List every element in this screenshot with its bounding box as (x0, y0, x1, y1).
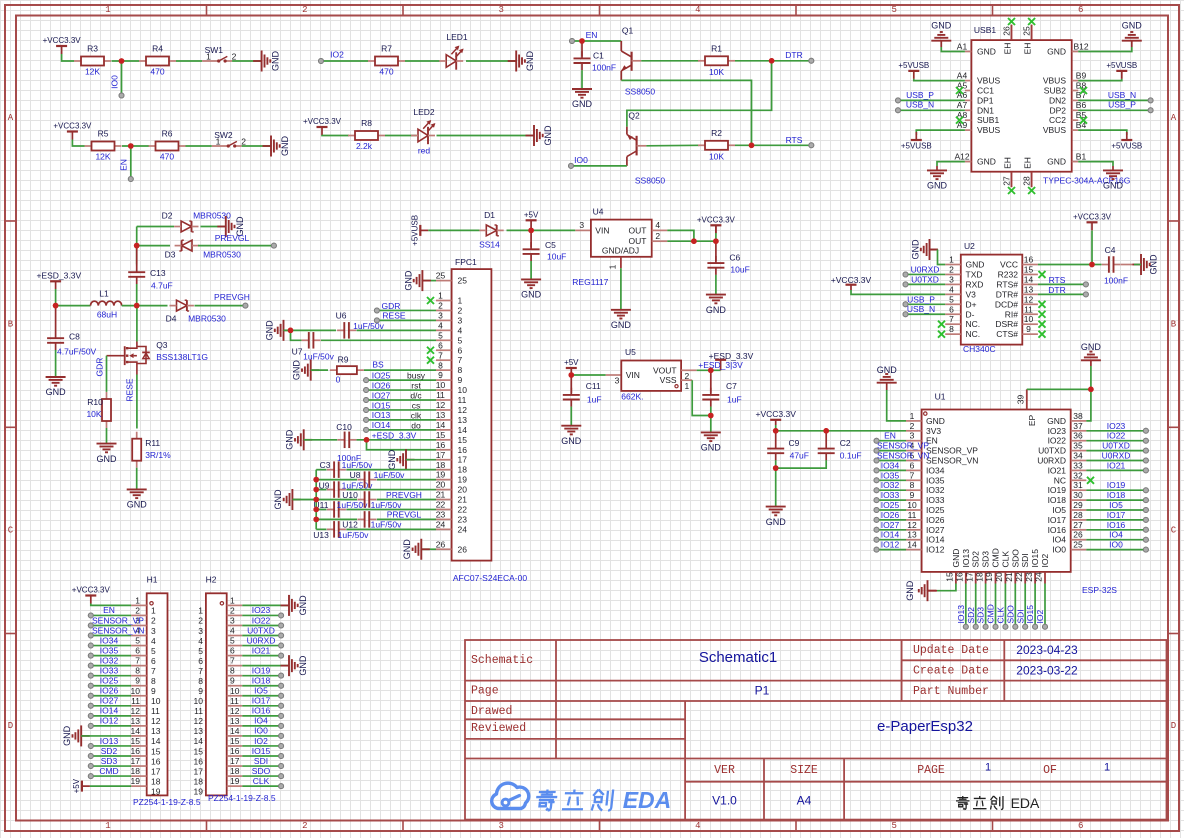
wire (735, 144, 811, 146)
svg-text:EN: EN (103, 605, 115, 615)
svg-text:CH340C: CH340C (963, 344, 996, 354)
ground GND (U4) (611, 309, 631, 311)
power +VCC3.3V (U2 VCC) (1087, 221, 1098, 223)
svg-text:14: 14 (194, 736, 204, 746)
power +VCC3.3V (U4) (710, 224, 721, 226)
svg-text:3: 3 (498, 5, 503, 15)
svg-text:18: 18 (436, 460, 446, 470)
svg-text:16: 16 (955, 572, 965, 582)
svg-text:15: 15 (230, 736, 240, 746)
wire SENSOR_VP (H1 pin 3) (88, 623, 93, 628)
svg-text:IO22: IO22 (1048, 436, 1067, 446)
U1 pin 21 SDO (1014, 572, 1016, 584)
junction cap bus (313, 477, 319, 483)
ground GND (C1) (572, 88, 592, 90)
svg-text:12: 12 (1024, 294, 1034, 304)
svg-text:DTR: DTR (1048, 285, 1065, 295)
svg-text:1: 1 (438, 291, 443, 301)
svg-text:19: 19 (436, 470, 446, 480)
svg-text:28: 28 (1073, 510, 1083, 520)
wire IO13 (H1 pin 15) (88, 743, 93, 748)
svg-text:H2: H2 (206, 575, 217, 585)
svg-text:3: 3 (438, 311, 443, 321)
power +VCC3.3V (R3) (56, 45, 67, 47)
power +5VUSB (D1) (419, 225, 421, 236)
wire B4 VBUS to +5VUSB (1078, 130, 1127, 135)
H1 pin 19 (131, 785, 147, 787)
svg-text:IO5: IO5 (1109, 500, 1123, 510)
U1 pin 11 IO26 (906, 519, 922, 521)
svg-text:IO26: IO26 (926, 515, 945, 525)
no-connect USB1 A8 (956, 117, 963, 124)
svg-text:19: 19 (151, 786, 161, 796)
ground GND (U1 EP) (1081, 359, 1101, 361)
svg-text:VER: VER (714, 764, 735, 777)
wire IO15 (FPC pin 12) (364, 407, 369, 412)
svg-text:PREVGH: PREVGH (214, 292, 250, 302)
wire (136, 468, 138, 490)
FPC1 pin 25 (436, 280, 452, 282)
svg-text:d/c: d/c (410, 391, 422, 401)
svg-text:12: 12 (194, 716, 204, 726)
H2 pin 15 (227, 745, 243, 747)
svg-text:GND: GND (265, 320, 275, 341)
svg-text:C11: C11 (586, 381, 601, 391)
svg-text:DN1: DN1 (977, 105, 994, 115)
svg-text:3: 3 (498, 821, 503, 831)
U1 pin 37 IO23 (1071, 430, 1087, 432)
svg-text:18: 18 (458, 465, 468, 475)
wire IO5 (H2 pin 10) (242, 695, 281, 697)
svg-text:B1: B1 (1076, 151, 1087, 161)
ground GND (C8) (46, 376, 66, 378)
ground GND (C11) (561, 425, 581, 427)
svg-text:R2: R2 (711, 128, 722, 138)
svg-text:1: 1 (105, 5, 110, 15)
FPC1 pin 26 (436, 548, 452, 550)
svg-text:H1: H1 (147, 575, 158, 585)
svg-text:IO27: IO27 (926, 525, 945, 535)
svg-text:470: 470 (160, 152, 174, 162)
svg-text:12: 12 (230, 706, 240, 716)
wire IO12 (H1 pin 13) (88, 723, 93, 728)
U1 pin 4 SENSOR_VP (906, 450, 922, 452)
wire IO33 (U1 pin 9) (874, 498, 879, 503)
U1 pin 6 IO34 (906, 469, 922, 471)
U2 pin 10 DSR# (1022, 323, 1038, 325)
ground GND (D2) (217, 226, 226, 228)
svg-text:EDA: EDA (1011, 795, 1040, 811)
svg-text:2: 2 (151, 616, 156, 626)
svg-text:U6: U6 (336, 311, 347, 321)
no-connect U2 pin8 (938, 331, 945, 338)
svg-text:GND: GND (977, 47, 996, 57)
wire IO13 (U1 bottom) (965, 584, 967, 625)
U1 pin 2 3V3 (906, 430, 922, 432)
svg-text:9: 9 (1026, 324, 1031, 334)
H2 pin 10 (227, 695, 243, 697)
svg-text:D3: D3 (165, 250, 176, 260)
U1 pin 39 EP (1026, 389, 1028, 409)
svg-text:13: 13 (151, 726, 161, 736)
capacitor C9 (775, 431, 777, 442)
FPC1 pin 8 (436, 369, 452, 371)
power +VCC3.3V (H1 pin1) (85, 594, 96, 596)
svg-text:25: 25 (458, 276, 468, 286)
no-connect U2 pin9 CTS# (1039, 331, 1046, 338)
svg-text:2: 2 (910, 421, 915, 431)
ground GND (C5) (521, 278, 541, 280)
svg-text:U10: U10 (342, 490, 358, 500)
ground GND (H2 pin7) (242, 665, 289, 667)
ground GND (U6/U7) (284, 329, 293, 331)
wire USB_P (A6) (896, 98, 901, 103)
svg-text:4: 4 (230, 626, 235, 636)
svg-text:SD3: SD3 (101, 756, 118, 766)
FPC1 pin 11 (436, 399, 452, 401)
wire IO33 (H1 pin 8) (88, 673, 93, 678)
svg-text:26: 26 (436, 539, 446, 549)
svg-text:GND: GND (387, 449, 397, 470)
wire IO17 (H2 pin 11) (242, 705, 281, 707)
FPC1 pin 17 (436, 459, 452, 461)
no-connect U2 pin10 DSR# (1039, 321, 1046, 328)
svg-text:IO5: IO5 (254, 686, 268, 696)
wire IO34 (U1 pin 6) (874, 468, 879, 473)
svg-text:24: 24 (458, 524, 468, 534)
svg-text:IO12: IO12 (100, 716, 119, 726)
svg-text:IO13: IO13 (956, 605, 966, 624)
svg-text:6: 6 (151, 656, 156, 666)
svg-text:GND: GND (611, 320, 632, 330)
ground GND (U1 pin1) (877, 382, 897, 384)
svg-text:+5VUSB: +5VUSB (901, 142, 932, 151)
svg-text:SUB1: SUB1 (977, 115, 999, 125)
svg-text:SD3: SD3 (981, 551, 991, 568)
USB1 pin A4 VBUS (965, 80, 972, 82)
svg-text:15: 15 (151, 746, 161, 756)
svg-text:IO16: IO16 (1107, 520, 1126, 530)
H1 pin 5 (131, 645, 147, 647)
svg-text:Create Date: Create Date (913, 665, 989, 678)
wire IO25 (H1 pin 9) (88, 683, 93, 688)
svg-text:2: 2 (230, 605, 235, 615)
svg-text:9: 9 (151, 686, 156, 696)
FPC1 pin 7 (436, 359, 452, 361)
svg-text:B12: B12 (1073, 41, 1088, 51)
svg-text:9: 9 (910, 490, 915, 500)
wire EN (H1 pin 2) (88, 613, 93, 618)
svg-text:EDA: EDA (623, 787, 672, 813)
svg-text:IO23: IO23 (252, 605, 271, 615)
svg-text:ESP-32S: ESP-32S (1082, 585, 1117, 595)
USB1 pin B7 DN2 (1072, 99, 1079, 101)
svg-text:RTS#: RTS# (996, 279, 1018, 289)
svg-text:GDR: GDR (95, 358, 105, 377)
resistor R5 (85, 145, 92, 147)
wire IO25 (FPC pin 9) (364, 378, 369, 383)
svg-text:6: 6 (135, 646, 140, 656)
ground GND (R10) (97, 443, 117, 445)
U2 pin 4 V3 (945, 293, 961, 295)
svg-text:red: red (418, 146, 431, 156)
wire RESE (FPC pin3) (374, 318, 379, 323)
wire Q2 base (646, 144, 699, 147)
svg-text:100nF: 100nF (592, 63, 616, 73)
svg-text:1: 1 (949, 255, 954, 265)
USB1 pin B8 SUB2 (1072, 90, 1079, 92)
svg-text:CLK: CLK (253, 776, 270, 786)
svg-text:C7: C7 (726, 381, 737, 391)
H1 pin 13 (131, 725, 147, 727)
svg-text:7: 7 (438, 350, 443, 360)
svg-text:16: 16 (131, 746, 141, 756)
svg-text:11: 11 (131, 696, 140, 706)
wire pin38 GND (1086, 389, 1091, 421)
capacitor C5 (530, 230, 532, 247)
wire (122, 145, 149, 147)
svg-text:IO5: IO5 (1052, 505, 1066, 515)
wire EN (U1 pin 3) (874, 438, 879, 443)
svg-text:CMD: CMD (991, 548, 1001, 567)
ground GND (R9) (311, 369, 320, 371)
svg-text:11: 11 (230, 696, 239, 706)
svg-text:12: 12 (151, 716, 161, 726)
svg-text:3: 3 (230, 615, 235, 625)
svg-text:IO32: IO32 (100, 655, 119, 665)
svg-text:DTR: DTR (785, 50, 802, 60)
svg-text:R3: R3 (87, 44, 98, 54)
ground GND (SW2) (263, 145, 272, 147)
svg-text:EH: EH (1023, 157, 1033, 169)
FPC1 pin 12 (436, 409, 452, 411)
svg-text:9: 9 (198, 686, 203, 696)
no-connect USB1 B5 (1080, 117, 1087, 124)
no-connect USB1 B8 (1080, 87, 1087, 94)
wire IO15 (H2 pin 16) (242, 755, 281, 757)
svg-text:IO26: IO26 (881, 510, 900, 520)
svg-text:VSS: VSS (660, 375, 677, 385)
no-connect USB1 pin28 (1028, 187, 1035, 194)
svg-text:rst: rst (411, 381, 421, 391)
H1 pin 12 (131, 715, 147, 717)
svg-text:GND: GND (292, 360, 302, 381)
svg-text:IO22: IO22 (1107, 431, 1126, 441)
capacitor C4 (1092, 264, 1102, 266)
H1 pin 1 (131, 604, 147, 606)
svg-text:31: 31 (1073, 480, 1083, 490)
H1 pin 11 (131, 705, 147, 707)
svg-text:7: 7 (151, 666, 156, 676)
wire C2 to C9 (776, 460, 827, 468)
svg-text:13: 13 (458, 415, 468, 425)
svg-text:20: 20 (994, 572, 1004, 582)
junction cap bus (313, 487, 319, 493)
svg-text:1: 1 (216, 137, 221, 147)
U1 pin 18 SD3 (985, 572, 987, 584)
wire BS (364, 369, 436, 371)
svg-text:U8: U8 (350, 470, 361, 480)
U1 pin 31 IO19 (1071, 489, 1087, 491)
svg-text:USB_N: USB_N (906, 100, 934, 110)
svg-text:U12: U12 (342, 520, 358, 530)
wire USB_P (U2 pin5) (903, 302, 908, 307)
svg-text:IO16: IO16 (1048, 525, 1067, 535)
ground GND (H1 pin14) (81, 735, 90, 737)
svg-text:VBUS: VBUS (977, 76, 1000, 86)
svg-text:SDI: SDI (1015, 609, 1025, 623)
wire (437, 135, 535, 137)
wire IO4 (U1 right) (1086, 539, 1144, 541)
svg-text:GND: GND (298, 655, 308, 676)
power +5VUSB (A4) (908, 70, 919, 72)
switch SW1 (202, 60, 219, 62)
svg-text:R10: R10 (87, 397, 103, 407)
svg-text:4.7uF: 4.7uF (151, 281, 173, 291)
ground GND (R11) (127, 488, 147, 490)
svg-text:SENSOR_VP: SENSOR_VP (92, 615, 144, 625)
wire IO34 (H1 pin 5) (88, 643, 93, 648)
U1 pin 29 IO5 (1071, 509, 1087, 511)
wire IO0 (121, 61, 123, 94)
svg-text:4: 4 (695, 821, 700, 831)
svg-text:2023-04-23: 2023-04-23 (1016, 643, 1078, 657)
svg-text:37: 37 (1073, 421, 1083, 431)
wire (122, 305, 168, 307)
svg-text:RXD: RXD (966, 279, 984, 289)
transistor Q1 (620, 41, 622, 51)
no-connect U2 pin12 DCD# (1039, 301, 1046, 308)
svg-text:3: 3 (151, 626, 156, 636)
svg-text:10: 10 (131, 686, 141, 696)
U4 pin2 OUT (652, 240, 668, 242)
svg-text:100nF: 100nF (1104, 276, 1128, 286)
ground GND (SW1) (253, 60, 262, 62)
svg-text:IO35: IO35 (926, 475, 945, 485)
svg-text:GND: GND (561, 436, 582, 446)
svg-text:2: 2 (458, 305, 463, 315)
svg-text:10K: 10K (709, 67, 724, 77)
svg-text:4: 4 (438, 320, 443, 330)
capacitor U13 (FPC pin 24) (316, 528, 326, 530)
svg-text:OUT: OUT (629, 225, 647, 235)
capacitor U9 (FPC pin 20) (316, 489, 326, 491)
svg-text:18: 18 (131, 766, 141, 776)
svg-text:IO0: IO0 (254, 726, 268, 736)
capacitor C10 (304, 439, 338, 441)
U1 pin 13 IO14 (906, 539, 922, 541)
svg-text:EP: EP (1027, 415, 1037, 427)
svg-text:REG1117: REG1117 (572, 277, 608, 287)
svg-text:3: 3 (198, 626, 203, 636)
svg-text:IO32: IO32 (881, 480, 900, 490)
wire RESE (136, 375, 138, 429)
H1 pin 18 (131, 775, 147, 777)
svg-text:GND: GND (62, 725, 72, 746)
svg-text:14: 14 (230, 726, 240, 736)
svg-text:47uF: 47uF (790, 451, 809, 461)
svg-text:RESE: RESE (382, 311, 405, 321)
svg-text:IO27: IO27 (372, 390, 391, 400)
svg-text:26: 26 (1002, 26, 1012, 36)
capacitor C7 (710, 370, 712, 393)
svg-text:2: 2 (302, 821, 307, 831)
svg-text:11: 11 (194, 706, 203, 716)
JLCEDA logo cloud icon (492, 783, 529, 808)
svg-text:IO4: IO4 (1052, 535, 1066, 545)
power +5VUSB (B9) (1116, 70, 1127, 72)
svg-text:16: 16 (436, 440, 446, 450)
wire SDO (U1 bottom) (1014, 584, 1016, 625)
USB1 pin A1 GND (965, 51, 972, 53)
svg-text:D-: D- (966, 309, 975, 319)
FPC1 pin 13 (436, 419, 452, 421)
svg-text:Schematic1: Schematic1 (699, 649, 777, 666)
svg-text:RTS: RTS (1049, 275, 1066, 285)
svg-text:IO18: IO18 (1048, 495, 1067, 505)
wire IO14 (H1 pin 12) (88, 713, 93, 718)
svg-text:IO25: IO25 (926, 505, 945, 515)
connector H2 PZ254-1-19-Z-8.5 (206, 593, 227, 795)
svg-text:A1: A1 (957, 41, 968, 51)
svg-text:SIZE: SIZE (790, 764, 818, 777)
FPC1 pin 16 (436, 449, 452, 451)
svg-text:IO2: IO2 (330, 50, 344, 60)
svg-text:6: 6 (438, 340, 443, 350)
svg-text:IO19: IO19 (252, 665, 271, 675)
wire (405, 60, 440, 62)
svg-text:5: 5 (949, 294, 954, 304)
svg-text:V1.0: V1.0 (712, 794, 737, 808)
wire IO27 (U1 pin 12) (874, 527, 879, 532)
FPC1 pin 2 (436, 309, 452, 311)
svg-text:1: 1 (685, 381, 690, 391)
svg-text:IO18: IO18 (252, 676, 271, 686)
svg-text:IO17: IO17 (252, 696, 271, 706)
wire (137, 245, 170, 247)
wire SENSOR_VP (U1 pin 4) (874, 448, 879, 453)
svg-text:VCC: VCC (1000, 260, 1018, 270)
resistor R8 (348, 135, 355, 137)
wire (692, 380, 711, 415)
IC U4 REG1117 (575, 229, 591, 231)
svg-text:12K: 12K (85, 67, 100, 77)
svg-text:IO21: IO21 (252, 645, 271, 655)
svg-text:U1: U1 (935, 392, 946, 402)
svg-text:10: 10 (907, 500, 917, 510)
svg-text:RTS: RTS (786, 135, 803, 145)
svg-text:DP2: DP2 (1049, 105, 1066, 115)
svg-text:23: 23 (436, 510, 446, 520)
wire USB_N (U2 pin6) (903, 312, 908, 317)
svg-text:19: 19 (131, 776, 141, 786)
wire IO2 (H2 pin 15) (242, 745, 281, 747)
H1 pin 14 (131, 735, 147, 737)
svg-text:EN: EN (119, 159, 129, 171)
power +5V (526, 219, 537, 221)
U1 pin 23 IO15 (1034, 572, 1036, 584)
wire (715, 275, 717, 295)
ground GND (USB1 A1) (931, 40, 951, 42)
USB1 shell pins 25/26 top (1011, 25, 1013, 40)
ground GND (C9) (766, 506, 786, 508)
wire SENSOR_VN (U1 pin 5) (874, 458, 879, 463)
svg-text:5: 5 (438, 330, 443, 340)
svg-text:D: D (1171, 721, 1176, 731)
svg-text:12: 12 (907, 520, 917, 530)
U2 pin 5 D+ (945, 303, 961, 305)
svg-text:U5: U5 (625, 347, 636, 357)
